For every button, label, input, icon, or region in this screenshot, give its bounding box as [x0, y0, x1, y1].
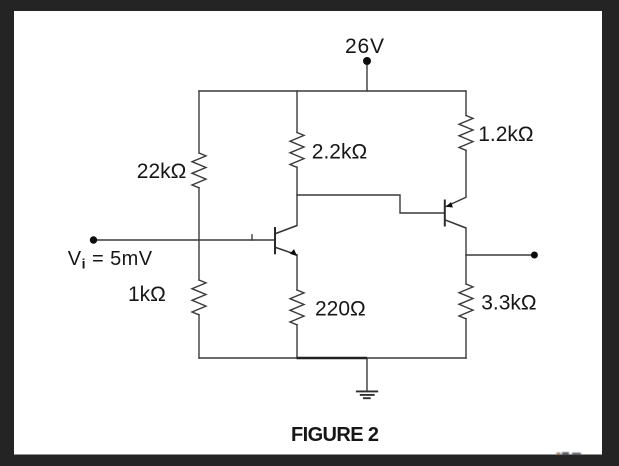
- transistor Q2 collector diagonal: [445, 220, 466, 228]
- transistor Q1 emitter diagonal: [276, 248, 297, 255]
- wire: 220 ohm bottom lead: [296, 325, 298, 358]
- svg-text:220Ω: 220Ω: [315, 298, 366, 321]
- transistor Q1 collector diagonal: [276, 226, 297, 234]
- wire: thick bottom overlap segment: [297, 357, 368, 360]
- svg-text:22kΩ: 22kΩ: [137, 160, 187, 183]
- transistor Q2 base bar: [444, 200, 446, 227]
- svg-text:2.2kΩ: 2.2kΩ: [312, 140, 367, 163]
- cut-off page number at bottom edge: [557, 452, 582, 454]
- svg-text:3.3kΩ: 3.3kΩ: [481, 292, 536, 315]
- wire: Q2 collector lead down to output and 3.3k: [465, 228, 467, 284]
- wire: bottom rail: [199, 357, 466, 359]
- wire: top supply rail: [199, 90, 466, 92]
- wire: 26V supply stub: [366, 61, 368, 91]
- resistor R 22k: [192, 153, 206, 188]
- transistor Q1 base bar: [274, 227, 276, 254]
- wire: left branch middle (22k to 1k, input junction): [198, 188, 200, 280]
- wire: 3.3k bottom lead: [465, 319, 467, 358]
- wire: 1.2k upper lead: [465, 91, 467, 116]
- wire: middle branch upper lead: [296, 91, 298, 133]
- wire: Q1 emitter lead: [296, 255, 298, 290]
- svg-text:26V: 26V: [345, 35, 385, 58]
- transistor Q2 emitter arrow: [446, 202, 453, 208]
- wire: left branch upper lead: [198, 91, 200, 153]
- wire: 1k bottom lead: [198, 315, 200, 358]
- resistor R 1k: [192, 280, 206, 315]
- resistor R 3.3k: [459, 284, 473, 319]
- ground symbol: [356, 391, 378, 398]
- transistor Q1 emitter arrow: [290, 249, 297, 256]
- wire: middle branch below 2.2k to Q1 collector: [296, 167, 298, 225]
- wire: Q1 collector to Q2 base: [297, 195, 444, 213]
- resistor R 2.2k: [290, 133, 304, 168]
- svg-text:FIGURE 2: FIGURE 2: [291, 424, 379, 446]
- wire: input line: [94, 239, 276, 241]
- wire: small tick on input line: [251, 235, 253, 240]
- svg-text:1.2kΩ: 1.2kΩ: [478, 123, 533, 146]
- wire: ground stem: [366, 358, 368, 391]
- wire: output line: [466, 254, 534, 256]
- svg-text:Vi = 5mV: Vi = 5mV: [68, 248, 153, 272]
- node: 26V supply terminal dot: [363, 57, 371, 65]
- wire: 1.2k lower lead to Q2 emitter: [446, 150, 466, 206]
- node: output terminal dot: [531, 252, 538, 259]
- svg-text:1kΩ: 1kΩ: [128, 283, 166, 306]
- node: input terminal dot: [90, 236, 97, 243]
- resistor R 220: [290, 290, 304, 325]
- resistor R 1.2k: [459, 116, 473, 151]
